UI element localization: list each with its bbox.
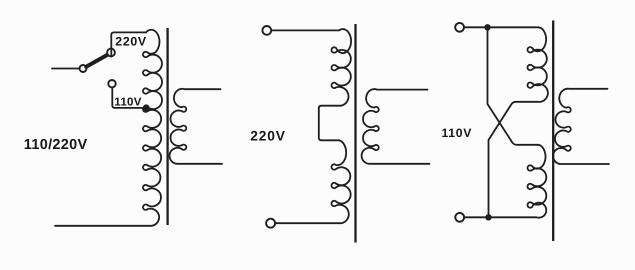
core T3	[552, 21, 554, 242]
wire input lead to switch	[52, 68, 80, 70]
switch SW1 blade	[86, 55, 108, 67]
terminal middle bottom	[266, 219, 275, 228]
tap junction dot on T1 primary	[143, 104, 150, 111]
svg-text:110V: 110V	[114, 96, 141, 108]
secondary winding T1	[170, 89, 222, 164]
wire cross B (upper half to bottom rail)	[489, 102, 538, 215]
series link (bracket)	[319, 106, 341, 141]
primary winding T2 lower half	[275, 140, 350, 223]
wire 220V contact to primary top	[111, 32, 146, 56]
primary winding T1 (tapped)	[55, 30, 162, 226]
junction dot right bottom	[485, 214, 491, 220]
junction dot right top	[484, 24, 490, 30]
switch SW1 220V contact	[107, 49, 115, 57]
svg-text:220V: 220V	[250, 128, 285, 143]
wire right top lead	[464, 26, 538, 28]
core T2	[354, 24, 356, 243]
wire cross A (top terminal to lower half)	[488, 30, 539, 145]
wire middle top lead	[271, 29, 339, 31]
svg-text:220V: 220V	[115, 35, 147, 49]
svg-text:110/220V: 110/220V	[24, 137, 88, 153]
core T1	[166, 28, 168, 225]
secondary winding T3	[553, 89, 609, 164]
primary winding T2 upper half	[331, 29, 351, 106]
terminal middle top	[262, 26, 271, 35]
primary winding T3 lower half	[464, 145, 546, 218]
switch SW1 110V contact	[108, 80, 115, 87]
wire 110V contact to winding tap	[112, 88, 145, 108]
secondary winding T2	[362, 89, 430, 164]
terminal right top	[455, 23, 464, 32]
svg-text:110V: 110V	[442, 126, 473, 140]
terminal right bottom	[455, 213, 464, 222]
switch SW1 pivot terminal	[80, 65, 87, 72]
primary winding T3 upper half	[527, 27, 547, 102]
